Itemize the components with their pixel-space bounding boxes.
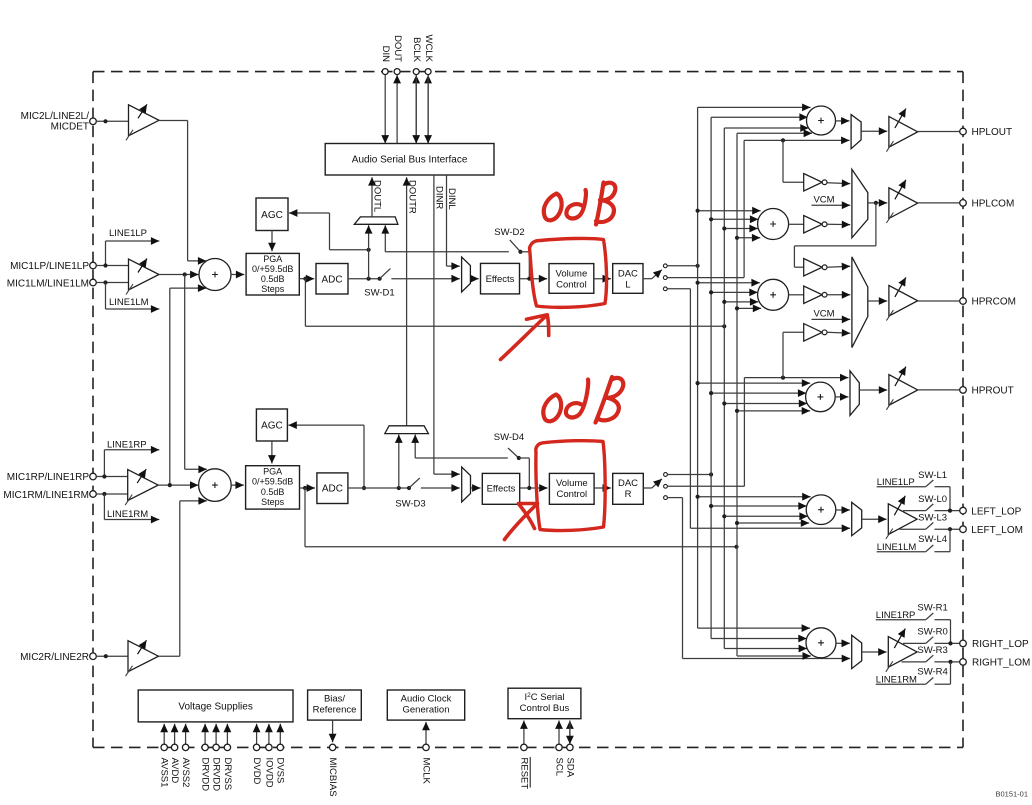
wire DOUTL mux left input [368, 225, 370, 279]
wire AGC left input tap [330, 249, 369, 251]
inverting buffer HPRCOM bottom [804, 324, 827, 342]
pin DOUT [394, 69, 400, 75]
junction LEFT_LOP [948, 509, 952, 513]
wire switch SW-L0 input from amp [903, 510, 926, 512]
wire LINE1LM stub [105, 283, 107, 310]
bus PGA_L vertical [723, 128, 725, 649]
svg-text:Effects: Effects [487, 483, 516, 494]
svg-text:MICBIAS: MICBIAS [327, 758, 338, 797]
switch SW-D3 pivot [407, 486, 411, 490]
svg-text:HPRCOM: HPRCOM [972, 297, 1016, 308]
svg-text:DVSS: DVSS [275, 758, 286, 784]
svg-text:B0151-01: B0151-01 [995, 790, 1028, 799]
wire RIGHT_LO sum to mux [836, 642, 850, 644]
wire switch SW-R4 input [876, 683, 926, 685]
amplifier MIC1R input amp [125, 469, 158, 505]
wire switch SW-L4 input [877, 551, 926, 553]
contact DAC R bottom [664, 496, 668, 500]
wire MIC1R amp output to right sum [158, 484, 198, 486]
svg-text:ADC: ADC [321, 274, 342, 285]
switch SW-L3 lever [926, 523, 934, 530]
red arrow pointing to left Volume Control [501, 315, 549, 360]
switch SW-D4 pivot [517, 456, 521, 460]
wire MIC1LM to amp [96, 282, 128, 284]
wire ADC right output [348, 487, 409, 489]
wire HPLOUT amp to pin [918, 131, 960, 133]
wire SDA bidirectional [569, 721, 571, 745]
chip boundary dashed border left [92, 72, 94, 748]
wire SW-L0 output to LEFT_LOP pin [935, 510, 960, 512]
wire DAC R output to selector [643, 487, 652, 489]
wire PGA_L bus to HPLCOM sum [724, 228, 758, 230]
svg-text:MICDET: MICDET [51, 122, 89, 133]
block Audio Clock Generation [387, 690, 464, 720]
junction MIC1R output [168, 483, 172, 487]
red handwriting d of second 0dB [566, 380, 588, 418]
wire pin AVSS1 to Voltage Supplies [163, 724, 165, 744]
wire left PGA bypass down and right to bus [304, 279, 306, 327]
wire SW-R3 output to RIGHT_LOM pin [935, 661, 960, 663]
wire MIC1R output up to left sum [169, 288, 171, 485]
switch SW-D3 lever [409, 478, 420, 488]
junction RIGHT_LOM [948, 660, 952, 664]
block Voltage Supplies [138, 690, 293, 722]
wire MIC1LP to amp [96, 265, 128, 267]
switch SW-R4 lever [926, 678, 934, 685]
wire PGA_R bus to LEFT_LO sum [737, 522, 809, 524]
pin AVDD [171, 744, 177, 750]
svg-text:SDA: SDA [564, 758, 575, 778]
wire LINE1LP stub [106, 240, 160, 242]
svg-text:0/+59.5dB: 0/+59.5dB [252, 477, 293, 487]
junction MIC2R [104, 654, 108, 658]
block Effects right [482, 473, 519, 504]
wire VCM into HPLCOM mux [812, 204, 851, 206]
svg-text:RESET: RESET [518, 758, 529, 790]
amplifier LEFT_LO driver [886, 496, 917, 539]
junction MIC1LP [103, 263, 107, 267]
svg-text:Control: Control [556, 280, 587, 291]
pin SCL [556, 744, 562, 750]
wire HPROUT amp to pin [918, 389, 960, 391]
mux HPLCOM output mux [852, 169, 868, 238]
svg-text:DAC: DAC [618, 478, 638, 489]
switch SW-D2 pivot [518, 250, 522, 254]
pin RESET [521, 744, 527, 750]
wire MIC1RM to amp [96, 493, 127, 495]
junction ADC output to DOUTL mux [367, 277, 371, 281]
wire DAC R top contact to DAC_R bus [668, 474, 711, 476]
svg-text:DINR: DINR [433, 186, 444, 209]
block PGA left [246, 253, 299, 295]
svg-text:MIC1LP/LINE1LP: MIC1LP/LINE1LP [10, 261, 89, 272]
wire SW-R4 output to RIGHT_LOM [935, 683, 951, 685]
pin HPLOUT [960, 128, 967, 135]
wire right PGA bypass down and right to bus [304, 488, 306, 547]
inverting buffer HPRCOM top [804, 259, 827, 277]
block PGA right [246, 466, 300, 509]
mux HPLOUT output mux [851, 115, 861, 149]
red handwriting B of first 0dB [596, 183, 615, 225]
switch SW-L1 lever [926, 480, 934, 487]
wire buffer to HPLCOM mux input [827, 182, 850, 185]
wire PGA_L bus to RIGHT_LO sum [724, 648, 807, 650]
inverting buffer HPRCOM middle [804, 286, 827, 304]
junction ADC right output to DOUTR mux [397, 486, 401, 490]
switch SW-D1 pivot [378, 277, 382, 281]
wire DAC_L bus to HPLOUT sum [698, 106, 811, 108]
wire HPROUT mux to amp [859, 389, 887, 391]
wire BCLK bidirectional [415, 75, 417, 144]
wire AGC right input tap [363, 425, 365, 488]
wire DAC_R bus to HPROUT sum [711, 392, 806, 394]
junction DAC_R bus source [709, 472, 713, 476]
inverting buffer HPLCOM bottom [804, 216, 827, 234]
wire PGA right output to ADC [300, 487, 316, 489]
amplifier HPROUT driver [886, 367, 917, 410]
svg-text:IOVDD: IOVDD [263, 758, 274, 788]
mux right effects input mux [462, 467, 471, 502]
pin HPROUT [960, 387, 967, 394]
svg-text:Reference: Reference [313, 705, 357, 716]
wire HPRCOM amp to pin [918, 300, 960, 302]
wire HPLOUT mux to amp [861, 130, 887, 132]
summing node RIGHT_LO [806, 628, 836, 658]
wire Volume Control right to DAC R [594, 487, 611, 489]
chip boundary dashed border right [962, 72, 964, 748]
mux DOUTR output mux [385, 426, 429, 434]
summing node LEFT_LO [806, 495, 836, 525]
svg-text:SW-D2: SW-D2 [494, 227, 524, 238]
pin MIC2L/LINE2L/MICDET [90, 118, 97, 125]
wire pin DVDD to Voltage Supplies [256, 724, 258, 744]
wire HPLCOM amp to pin [918, 202, 960, 204]
svg-text:L: L [625, 280, 630, 291]
wire HPRCOM sum to inverting buffer [789, 294, 804, 296]
wire buffer to HPRCOM mux input 4 [827, 331, 850, 334]
junction HPROUT bypass tap to HPRCOM buffer [781, 376, 785, 380]
wire LINE1RM stub [103, 494, 105, 520]
svg-text:DRVDD: DRVDD [200, 758, 211, 792]
wire switch SW-R0 input from amp [903, 642, 926, 644]
junction AGC right tap [362, 486, 366, 490]
summing node right record sum [199, 469, 232, 502]
svg-text:DRVDD: DRVDD [211, 758, 222, 792]
wire SCL to I2C block [558, 721, 560, 745]
svg-text:DINL: DINL [446, 188, 457, 210]
junction LEFT_LOM [948, 527, 952, 531]
wire right effects mux output [471, 487, 481, 489]
wire LINE1RP stub [103, 450, 105, 477]
wire buffer to HPLCOM mux lower input [827, 223, 850, 225]
pin HPLCOM [960, 200, 967, 207]
wire MIC1L amp output to left sum [159, 274, 199, 276]
junction PGA left output bypass tap [303, 277, 307, 281]
svg-text:VCM: VCM [813, 194, 834, 205]
wire WCLK bidirectional [427, 75, 429, 144]
wire SW-L1 output to LEFT_LOP [935, 486, 951, 488]
switch DAC R selector arrow [652, 479, 662, 488]
wire pin IOVDD to Voltage Supplies [268, 724, 270, 744]
block ADC left [316, 264, 348, 295]
summing node HPLOUT [807, 106, 836, 135]
red handwriting 0 of first 0dB [544, 194, 562, 221]
pin LEFT_LOP [960, 507, 967, 514]
red handwriting B of second 0dB [596, 377, 624, 423]
wire MICBIAS from Bias/Reference [332, 720, 334, 742]
block Volume Control right [549, 473, 594, 504]
svg-text:RIGHT_LOP: RIGHT_LOP [972, 639, 1029, 650]
wire PGA_L bus to LEFT_LO sum [724, 515, 808, 517]
contact DAC L middle [663, 276, 667, 280]
svg-text:PGA: PGA [263, 467, 282, 477]
contact DAC L top [663, 264, 667, 268]
pin BCLK [413, 69, 419, 75]
summing node HPRCOM [758, 279, 789, 310]
wire pin DRVDD to Voltage Supplies [215, 724, 217, 744]
junction left PGA bypass joins PGA_L bus [722, 324, 726, 328]
wire HPLCOM mux to amp [868, 202, 887, 204]
svg-text:Audio Serial Bus Interface: Audio Serial Bus Interface [352, 155, 468, 166]
switch SW-L0 lever [926, 504, 934, 511]
pin HPRCOM [960, 298, 967, 305]
svg-text:MIC1LM/LINE1LM: MIC1LM/LINE1LM [7, 278, 89, 289]
wire pin AVDD to Voltage Supplies [174, 724, 176, 744]
amplifier MIC2L input amp [126, 104, 159, 140]
svg-text:AVSS2: AVSS2 [180, 758, 191, 788]
wire LEFT_LO mux to amp [862, 518, 887, 520]
svg-text:AVDD: AVDD [169, 758, 180, 784]
wire DAC_L bus to HPRCOM sum [698, 282, 760, 284]
pin RIGHT_LOM [960, 659, 967, 666]
wire MIC2R to amp [96, 655, 128, 657]
switch SW-R3 lever [926, 655, 934, 662]
junction SW-D4 tap on volume input [527, 486, 531, 490]
pin DRVDD [202, 744, 208, 750]
chip boundary dashed border bottom [93, 746, 963, 748]
wire SW-D3 to right effects mux [421, 487, 460, 489]
red arrow pointing to right Volume Control [505, 504, 538, 540]
svg-text:DOUTR: DOUTR [406, 180, 417, 214]
svg-text:LEFT_LOP: LEFT_LOP [971, 506, 1021, 517]
wire DAC L output to selector [643, 278, 652, 280]
switch SW-D2 lever [510, 240, 521, 252]
red handwriting d of first 0dB [566, 190, 586, 218]
svg-text:SW-R1: SW-R1 [917, 603, 947, 614]
mux LEFT_LO output mux [852, 502, 862, 535]
wire DOUTR mux right input from SW-D4 [414, 435, 416, 459]
wire DAC_L bus to RIGHT_LO sum [698, 627, 810, 629]
wire DAC_L bus to HPROUT sum [698, 382, 811, 384]
svg-text:LEFT_LOM: LEFT_LOM [971, 525, 1023, 536]
junction AGC tap on mux feed [367, 248, 371, 252]
wire HPRCOM mux to amp [868, 300, 887, 302]
switch SW-D4 lever [508, 448, 519, 458]
red box around right Volume Control [536, 441, 605, 531]
wire AGC left output to PGA [271, 231, 273, 252]
mux DOUTL output mux [354, 217, 398, 224]
junction MIC1RP [102, 474, 106, 478]
pin MIC1RP/LINE1RP [90, 473, 97, 480]
wire Volume Control left to DAC L [594, 278, 611, 280]
summing node HPROUT [806, 382, 836, 412]
wire PGA_L bus to HPLOUT sum [724, 127, 808, 129]
wire RESET to I2C block [523, 721, 525, 745]
wire DIN pin to Audio Serial Bus Interface [384, 75, 386, 144]
pin WCLK [425, 69, 431, 75]
junction MIC1LM [103, 280, 107, 284]
summing node left record sum [199, 259, 231, 291]
block DAC R [613, 473, 644, 504]
pin DVSS [277, 744, 283, 750]
svg-text:R: R [625, 489, 632, 500]
svg-text:HPLOUT: HPLOUT [972, 127, 1013, 138]
junction RIGHT_LOP [948, 641, 952, 645]
summing node HPLCOM [758, 209, 789, 240]
pin AVSS1 [161, 744, 167, 750]
wire HPLOUT sum to mux [836, 120, 850, 122]
wire MIC2L pin to amp [96, 120, 128, 122]
svg-text:RIGHT_LOM: RIGHT_LOM [972, 658, 1030, 669]
svg-text:BCLK: BCLK [411, 37, 422, 62]
wire pin DRVSS to Voltage Supplies [226, 724, 228, 744]
contact DAC R middle [664, 484, 668, 488]
svg-text:Effects: Effects [486, 274, 515, 285]
wire MIC1RP to amp [96, 476, 127, 478]
svg-text:SW-L0: SW-L0 [918, 494, 947, 505]
svg-text:SW-L4: SW-L4 [918, 534, 947, 545]
svg-text:VCM: VCM [813, 309, 834, 320]
wire switch SW-R1 input [876, 619, 926, 621]
pin DRVDD [213, 744, 219, 750]
svg-text:AGC: AGC [261, 421, 283, 432]
svg-text:MIC1RP/LINE1RP: MIC1RP/LINE1RP [7, 472, 90, 483]
wire SW-D4 tap down to volume control input [519, 457, 530, 459]
wire DAC R bottom contact to RIGHT_LO mux bypass [668, 497, 683, 499]
wire DOUTR to serial interface [406, 177, 408, 426]
svg-text:I2C Serial: I2C Serial [524, 692, 564, 703]
svg-text:DRVSS: DRVSS [222, 758, 233, 791]
pin AVSS2 [182, 744, 188, 750]
pin IOVDD [266, 744, 272, 750]
wire DAC L middle contact to HPLOUT mux bypass [667, 277, 744, 279]
svg-text:SW-L1: SW-L1 [918, 470, 947, 481]
wire switch SW-L3 input from amp [900, 528, 926, 530]
switch SW-R0 lever [926, 637, 934, 644]
junction SW-D2 tap on volume input [527, 277, 531, 281]
switch SW-R1 lever [926, 613, 934, 620]
svg-text:AGC: AGC [261, 210, 283, 221]
block AGC right [256, 409, 287, 441]
svg-text:0.5dB: 0.5dB [261, 487, 285, 497]
wire switch SW-R3 input from amp [902, 661, 926, 663]
inverting buffer HPLCOM top [804, 174, 827, 192]
svg-text:Control: Control [556, 489, 587, 500]
pin MIC1RM/LINE1RM [90, 491, 97, 498]
svg-text:HPLCOM: HPLCOM [972, 199, 1015, 210]
svg-text:DOUT: DOUT [392, 35, 403, 62]
contact DAC L bottom [663, 287, 667, 291]
block Audio Serial Bus Interface [325, 144, 494, 176]
amplifier HPLOUT driver [886, 109, 917, 152]
wire buffer to HPRCOM mux input [827, 266, 850, 267]
svg-text:SW-D3: SW-D3 [395, 498, 425, 509]
switch DAC L selector arrow [652, 270, 662, 279]
pin MICBIAS [329, 744, 335, 750]
block Bias/Reference [308, 690, 362, 720]
junction MIC1L output [183, 272, 187, 276]
svg-text:SCL: SCL [553, 758, 564, 776]
junction PGA right output bypass tap [303, 486, 307, 490]
svg-text:DIN: DIN [380, 46, 391, 63]
wire buffer to HPRCOM mux input 2 [827, 294, 850, 296]
junction DAC_L bus source [696, 264, 700, 268]
wire DAC_R bus to HPLOUT sum [711, 116, 808, 118]
pin MIC1LM/LINE1LM [90, 279, 97, 286]
wire DOUT from Audio Serial Bus Interface to pin [396, 75, 398, 144]
svg-text:SW-R0: SW-R0 [917, 627, 947, 638]
wire SW-L3 output to LEFT_LOM pin [935, 528, 960, 530]
wire switch SW-L1 input [877, 486, 926, 488]
wire VCM into HPRCOM mux [812, 318, 851, 320]
wire Effects left to Volume Control [520, 278, 548, 280]
wire HPLCOM output tap down to HPRCOM buffer [875, 203, 877, 246]
pin MIC2R/LINE2R [90, 653, 97, 660]
wire PGA_R bus to HPROUT sum [737, 410, 810, 412]
svg-text:Steps: Steps [261, 497, 285, 507]
svg-text:WCLK: WCLK [423, 35, 434, 63]
wire MCLK to Audio Clock Generation [425, 722, 427, 744]
wire PGA_L bus to HPROUT sum [724, 403, 807, 405]
wire DAC_L bus to HPLCOM sum [698, 210, 761, 212]
wire pin DRVDD to Voltage Supplies [204, 724, 206, 744]
amplifier HPRCOM driver [886, 277, 917, 320]
wire pin DVSS to Voltage Supplies [279, 724, 281, 744]
wire PGA_R bus to HPLOUT sum [737, 132, 812, 134]
wire tap down to HPLCOM inverting buffer [782, 140, 784, 182]
wire DAC_R bus to HPLCOM sum [711, 218, 758, 220]
switch SW-L4 lever [926, 545, 934, 552]
bus PGA_R vertical [736, 133, 738, 656]
wire MIC1L output down to right sum [184, 275, 186, 470]
pin SDA [567, 744, 573, 750]
svg-text:SW-D4: SW-D4 [494, 432, 524, 443]
wire tap up to HPRCOM lower inverting buffer [782, 332, 784, 377]
svg-text:LINE1RP: LINE1RP [107, 439, 147, 450]
amplifier HPLCOM driver [886, 180, 917, 223]
wire DINL from serial interface to left effects mux [446, 175, 448, 266]
pin RIGHT_LOP [960, 640, 967, 647]
wire DOUTL to serial interface [371, 177, 373, 217]
svg-text:MIC1RM/LINE1RM: MIC1RM/LINE1RM [3, 490, 89, 501]
bus DAC_R vertical [710, 117, 712, 638]
svg-text:AVSS1: AVSS1 [159, 758, 170, 788]
mux HPROUT output mux [850, 371, 859, 416]
block ADC right [317, 473, 348, 504]
svg-text:MIC2R/LINE2R: MIC2R/LINE2R [20, 652, 89, 663]
wire SW-L4 output to LEFT_LOM [935, 551, 951, 553]
wire DAC R middle contact to HPROUT mux bypass [668, 485, 745, 487]
pin MIC1LP/LINE1LP [90, 262, 97, 269]
pin LEFT_LOM [960, 526, 967, 533]
wire DAC_L bus to LEFT_LO sum [698, 496, 811, 498]
wire ADC left output [348, 278, 380, 280]
wire HPLCOM sum to inverting buffer [789, 223, 804, 225]
svg-text:Audio Clock: Audio Clock [401, 694, 452, 705]
block I2C Serial Control Bus [508, 688, 581, 719]
switch SW-D1 lever [380, 269, 391, 279]
svg-text:HPROUT: HPROUT [972, 386, 1014, 397]
